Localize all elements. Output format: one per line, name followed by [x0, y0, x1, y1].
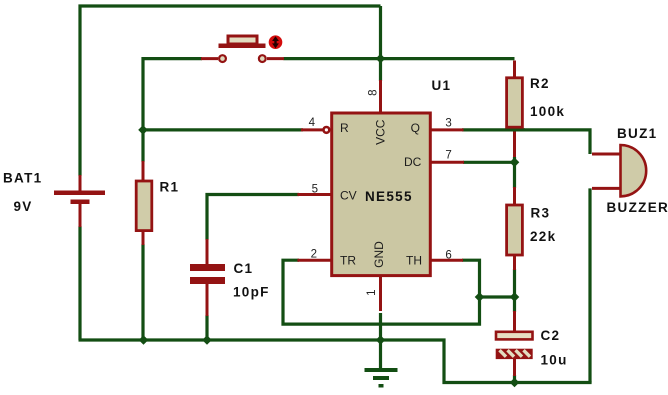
- svg-text:DC: DC: [404, 155, 422, 169]
- node junction x514.5 y162.5: [510, 158, 520, 168]
- svg-text:TR: TR: [340, 253, 356, 267]
- svg-text:U1: U1: [432, 78, 452, 93]
- wire R1 bottom to rail: [141, 244, 144, 340]
- pin stub R1 bottom: [142, 231, 145, 245]
- svg-text:7: 7: [445, 149, 451, 161]
- pin stub C2 bottom: [513, 359, 516, 376]
- wire R2 R3 C2 column green segments: [513, 157, 516, 188]
- pin stub pin8: [379, 80, 382, 113]
- pin stub buzzer bottom: [592, 187, 620, 190]
- wire CV to C1: [207, 195, 299, 241]
- pin stub R3 top: [513, 187, 516, 205]
- pin stub button right: [267, 57, 284, 60]
- svg-text:R2: R2: [530, 76, 550, 91]
- pin stub C2 top: [513, 311, 516, 332]
- svg-text:R1: R1: [160, 179, 180, 194]
- wire reset row y58.5 left of button: [143, 57, 202, 60]
- pin stub pin3: [429, 128, 464, 131]
- pin stub R3 bottom: [513, 255, 516, 270]
- node junction x514.5 y296.5: [510, 292, 520, 302]
- pin stub C1 top: [206, 239, 209, 264]
- wire pin3 to buzzer: [462, 130, 590, 154]
- wire vertical x143 from row to pin4 node: [141, 57, 144, 130]
- pin stub pin2: [297, 259, 331, 262]
- pin4 inversion bubble: [324, 127, 330, 133]
- svg-text:6: 6: [445, 249, 451, 261]
- node junction x207 y340: [202, 335, 212, 345]
- svg-text:TH: TH: [406, 253, 422, 267]
- push button cap: [219, 36, 266, 48]
- pin stub battery top: [79, 175, 82, 191]
- svg-text:100k: 100k: [530, 104, 565, 119]
- push button left contact: [219, 55, 226, 62]
- op-amp U1 555 timer body: [332, 113, 431, 276]
- node junction x514.5 y382.5: [510, 378, 520, 388]
- svg-text:R: R: [340, 121, 349, 135]
- svg-text:3: 3: [445, 118, 451, 130]
- wire battery negative down to bottom rail: [78, 226, 81, 340]
- svg-text:10u: 10u: [541, 353, 568, 368]
- resistor R2: [507, 78, 523, 127]
- pin stub pin6: [429, 259, 463, 262]
- resistor R1: [136, 181, 152, 231]
- svg-text:R3: R3: [531, 205, 551, 220]
- pin stub pin7: [429, 161, 464, 164]
- svg-text:NE555: NE555: [365, 189, 413, 204]
- svg-text:5: 5: [312, 184, 318, 196]
- node junction x144 y340: [139, 335, 149, 345]
- svg-text:BAT1: BAT1: [3, 170, 42, 185]
- wire TR loop: [283, 260, 480, 324]
- wire TH down: [462, 260, 480, 298]
- wire node TH to C2 column: [480, 295, 515, 298]
- pin stub pin1: [379, 275, 382, 311]
- battery BAT1: [54, 191, 105, 205]
- wire vcc vertical x380: [379, 6, 382, 81]
- node junction x143 y130: [138, 125, 148, 135]
- svg-text:4: 4: [309, 117, 316, 129]
- push button right contact: [259, 55, 266, 62]
- ground: [365, 368, 398, 388]
- wire top horizontal and left vertical to battery: [80, 6, 381, 176]
- svg-text:C2: C2: [541, 328, 561, 343]
- push button actuator red circle: [269, 35, 283, 49]
- svg-text:C1: C1: [234, 261, 254, 276]
- pin stub buzzer top: [592, 153, 620, 156]
- pin stub R1 top: [142, 161, 145, 180]
- svg-text:VCC: VCC: [373, 119, 387, 145]
- node junction x380 y340: [376, 335, 386, 345]
- wire buzzer bottom vertical: [588, 188, 591, 382]
- wire pin4 horizontal: [143, 128, 303, 131]
- pin stub button left: [201, 57, 218, 60]
- pin stub R2 bottom long: [513, 128, 516, 157]
- pin stub pin4: [301, 128, 323, 131]
- buzzer BUZ1: [621, 145, 647, 196]
- svg-text:1: 1: [366, 289, 378, 295]
- svg-text:8: 8: [367, 89, 379, 95]
- wire reset row y58.5 right of button: [284, 57, 515, 60]
- node junction x380 y58.5: [376, 54, 386, 64]
- svg-text:9V: 9V: [14, 199, 33, 214]
- wire x143 down to R1: [141, 130, 144, 162]
- capacitor C2 electrolytic: [496, 332, 533, 359]
- wire bottom rail: [79, 340, 592, 383]
- svg-text:BUZ1: BUZ1: [617, 126, 657, 141]
- svg-text:10pF: 10pF: [233, 284, 270, 299]
- svg-text:CV: CV: [340, 189, 357, 203]
- svg-text:GND: GND: [372, 241, 386, 268]
- pin stub pin5: [297, 193, 331, 196]
- svg-text:22k: 22k: [530, 229, 556, 244]
- node junction x479.5 y296.5: [475, 292, 485, 302]
- pin stub C1 bottom: [206, 284, 209, 316]
- capacitor C1: [190, 264, 225, 284]
- pin stub battery bottom: [79, 204, 82, 227]
- svg-text:Q: Q: [411, 121, 420, 135]
- svg-text:BUZZER: BUZZER: [607, 200, 668, 215]
- svg-text:2: 2: [311, 249, 317, 261]
- resistor R3: [507, 205, 523, 255]
- pin3 wire over R2 stub crossing: [505, 128, 525, 131]
- wire C1 bottom to rail: [205, 315, 208, 340]
- pin stub R2 top: [513, 61, 516, 78]
- wire pin1 to rail and ground: [379, 313, 382, 369]
- wire pin7 horizontal: [463, 161, 515, 164]
